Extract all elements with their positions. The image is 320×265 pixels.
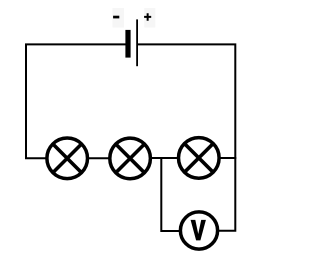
battery B1 negative plate (short thick bar) xyxy=(125,30,130,58)
battery B1 positive plate (long thin bar) xyxy=(136,19,138,66)
label + (battery positive polarity mark) xyxy=(144,8,155,28)
wire W5: lamp L3 to right vertical wire xyxy=(218,157,236,159)
lamp L1 xyxy=(47,138,88,179)
wire W4: lamp L2 to lamp L3 xyxy=(150,157,180,159)
wire W1: battery negative terminal along top-left, down left side to lamp L1 xyxy=(26,44,127,158)
wire W2: battery positive terminal along top, down right side to voltmeter xyxy=(137,44,235,230)
lamp L2 xyxy=(110,138,151,179)
wire W3: lamp L1 to lamp L2 xyxy=(88,157,111,159)
voltmeter V1 xyxy=(180,212,217,249)
lamp L3 xyxy=(179,138,220,179)
label - (battery negative polarity mark) xyxy=(113,8,125,28)
wire W6: voltmeter branch from junction between L2 and L3 down to voltmeter xyxy=(161,158,180,232)
